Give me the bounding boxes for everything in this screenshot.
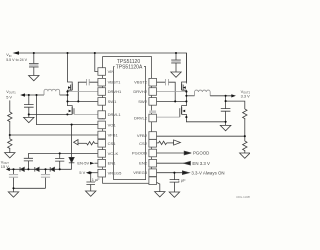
- svg-text:DRVH1: DRVH1: [108, 89, 122, 94]
- svg-text:VO1: VO1: [108, 122, 117, 127]
- svg-text:EN1: EN1: [108, 161, 117, 166]
- svg-text:DRVL1: DRVL1: [108, 112, 122, 117]
- svg-text:5 V: 5 V: [79, 170, 85, 175]
- svg-text:1 µF: 1 µF: [92, 177, 100, 182]
- svg-text:SW1: SW1: [108, 99, 118, 104]
- svg-text:VCLK: VCLK: [108, 151, 119, 156]
- svg-text:VREG5: VREG5: [108, 171, 122, 176]
- svg-text:SW2: SW2: [138, 99, 148, 104]
- svg-text:UDG-11086: UDG-11086: [236, 195, 250, 199]
- svg-text:PGOOD: PGOOD: [132, 151, 147, 156]
- svg-text:15 V: 15 V: [1, 164, 9, 169]
- svg-text:EN-5V: EN-5V: [77, 160, 89, 165]
- svg-text:EN 3.3 V: EN 3.3 V: [192, 161, 210, 166]
- svg-text:CS2: CS2: [139, 141, 148, 146]
- svg-text:5.5 V to 24 V: 5.5 V to 24 V: [6, 58, 27, 62]
- svg-text:5 V: 5 V: [6, 95, 12, 100]
- svg-text:TPS51120A: TPS51120A: [116, 64, 143, 70]
- svg-text:DRVL2: DRVL2: [134, 116, 148, 121]
- svg-text:3.3-V Always ON: 3.3-V Always ON: [191, 171, 224, 176]
- svg-text:DRVH2: DRVH2: [133, 89, 147, 94]
- svg-text:VBST1: VBST1: [108, 80, 122, 85]
- svg-text:EN2: EN2: [139, 161, 148, 166]
- svg-text:VBST2: VBST2: [134, 80, 148, 85]
- svg-text:VFB2: VFB2: [137, 133, 148, 138]
- svg-text:CS1: CS1: [108, 141, 117, 146]
- svg-text:PGOOD: PGOOD: [193, 151, 209, 156]
- svg-text:1 µF: 1 µF: [178, 178, 186, 183]
- svg-text:VIN: VIN: [108, 69, 115, 74]
- svg-text:3.3 V: 3.3 V: [241, 93, 250, 98]
- svg-text:VFB1: VFB1: [108, 133, 119, 138]
- svg-text:VREG3: VREG3: [133, 170, 147, 175]
